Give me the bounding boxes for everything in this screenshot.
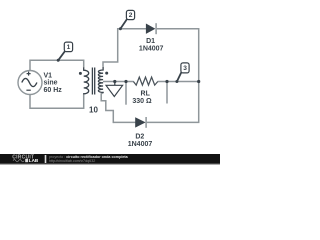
svg-text:D1: D1 [146,38,155,45]
svg-text:RL: RL [141,90,151,97]
svg-text:sine: sine [44,80,58,87]
svg-text:3: 3 [183,65,187,72]
svg-text:2: 2 [129,12,133,19]
svg-text:LAB: LAB [29,158,39,163]
svg-text:330 Ω: 330 Ω [132,98,152,105]
svg-text:1N4007: 1N4007 [128,141,153,148]
svg-text:60 Hz: 60 Hz [44,87,63,94]
svg-text:10: 10 [89,105,98,114]
svg-text:1: 1 [67,44,71,51]
svg-text:http:⁄⁄circuitlab.com⁄c⁄7dq632: http:⁄⁄circuitlab.com⁄c⁄7dq632 [49,159,95,163]
svg-text:V1: V1 [44,72,53,79]
svg-text:D2: D2 [135,134,144,141]
svg-text:1N4007: 1N4007 [139,46,164,53]
